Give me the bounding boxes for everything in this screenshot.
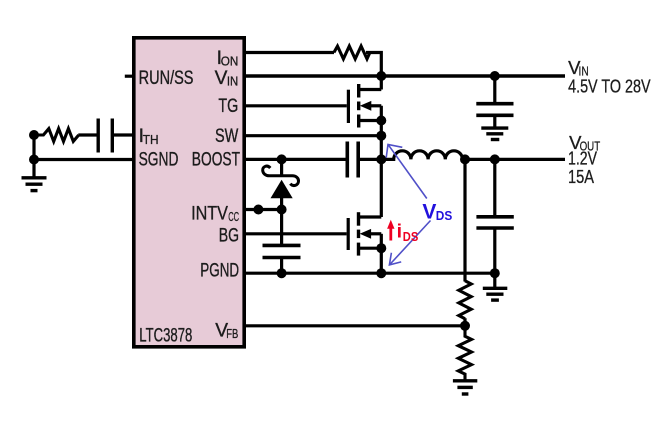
node INTVCC dot A [253, 205, 263, 215]
node VIN-CIN [490, 71, 500, 81]
node VOUT-COUT junction [490, 154, 500, 164]
wire resistor to cap [78, 133, 96, 136]
svg-text:SW: SW [215, 126, 239, 147]
node VIN-M1 [376, 71, 386, 81]
ground feedback [453, 381, 477, 394]
transistor Q2 bottom MOSFET [348, 212, 381, 273]
node Q2-PGND junction [376, 268, 386, 278]
svg-text:15A: 15A [568, 166, 595, 187]
svg-text:INTV: INTV [191, 203, 228, 224]
transistor Q1 top MOSFET [348, 76, 381, 128]
arrow VDS lower [389, 221, 430, 265]
wire to VFB node [463, 318, 466, 326]
resistor R ITH [34, 129, 79, 142]
arrow VDS upper [386, 145, 427, 199]
wire VIN rail [244, 74, 565, 77]
wire BG [244, 232, 347, 235]
ground PGND [483, 273, 508, 300]
wire SW [244, 134, 381, 137]
capacitor CIN [476, 76, 513, 128]
wire BOOST [244, 158, 346, 161]
wire TG [244, 104, 347, 107]
svg-text:PGND: PGND [200, 261, 239, 282]
diode D1 schottky [263, 159, 299, 209]
wire ION [244, 51, 334, 54]
node INTVCC dot B [277, 205, 287, 215]
capacitor C ITH [98, 119, 134, 153]
svg-text:BG: BG [219, 226, 239, 247]
capacitor CVCC intvcc bypass [263, 210, 301, 274]
node Q2 source junction [376, 243, 386, 253]
svg-text:i: i [397, 221, 402, 243]
svg-text:IN: IN [227, 74, 238, 89]
wire feedback vertical [463, 159, 466, 281]
capacitor COUT [476, 159, 513, 273]
ground CIN [481, 128, 508, 139]
svg-text:V: V [215, 68, 228, 89]
inductor L1 [381, 151, 565, 160]
node CVCC-PGND junction [277, 268, 287, 278]
svg-text:V: V [422, 201, 436, 224]
svg-text:SGND: SGND [139, 149, 179, 170]
svg-text:DS: DS [403, 229, 419, 244]
resistor R feedback top [459, 281, 471, 319]
svg-text:BOOST: BOOST [192, 149, 240, 170]
wire INTVCC [244, 208, 282, 211]
node Q1 source junction [376, 116, 386, 126]
wire ITH-SGND vertical [32, 135, 35, 178]
node L-feedback junction [460, 154, 470, 164]
op-amp U1 LTC3878 IC body [134, 38, 244, 347]
svg-text:CC: CC [228, 209, 239, 224]
node SGND junction [29, 155, 39, 165]
svg-text:ON: ON [221, 54, 239, 69]
node BOOST-diode junction [277, 154, 287, 164]
node SW-boost-inductor junction [376, 154, 386, 164]
node SW junction [376, 131, 386, 141]
capacitor CB boost [347, 142, 381, 178]
wire SW node vertical [380, 106, 383, 217]
wire ION corner [366, 53, 381, 77]
resistor R ION [334, 46, 370, 59]
wire VFB [244, 324, 465, 327]
ground left [22, 178, 47, 191]
node VFB junction [460, 321, 470, 331]
svg-text:DS: DS [436, 208, 453, 223]
wire SGND [34, 158, 134, 161]
arrow iDS red [387, 220, 394, 241]
node ITH junction [29, 130, 39, 140]
svg-text:TH: TH [143, 132, 159, 147]
svg-text:FB: FB [226, 326, 238, 341]
svg-text:4.5V TO 28V: 4.5V TO 28V [568, 76, 651, 97]
svg-text:TG: TG [218, 96, 238, 117]
resistor R feedback bottom [458, 326, 471, 381]
svg-text:RUN/SS: RUN/SS [139, 68, 194, 89]
wire RUN/SS stub [125, 75, 134, 78]
node PGND-COUT junction [490, 268, 500, 278]
wire PGND [244, 272, 495, 275]
svg-text:LTC3878: LTC3878 [139, 326, 192, 347]
